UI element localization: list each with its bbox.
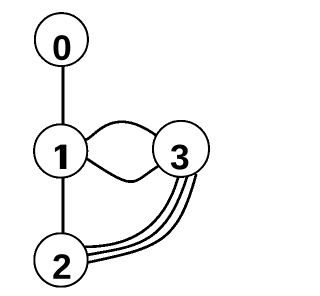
- wire edge 2-3 outer arc: [85, 174, 197, 263]
- wire edge 0-1: [62, 64, 65, 127]
- node 1: [34, 124, 87, 177]
- wire edge 1-3 lower arc: [87, 159, 159, 182]
- wire edge 1-3 upper arc: [85, 122, 158, 140]
- node 0: [35, 13, 88, 66]
- node 2: [34, 233, 87, 286]
- wire edge 2-3 inner arc: [85, 178, 179, 247]
- node 3: [153, 121, 209, 177]
- wire edge 2-3 middle arc: [85, 177, 187, 256]
- wire edge 1-2: [62, 176, 65, 235]
